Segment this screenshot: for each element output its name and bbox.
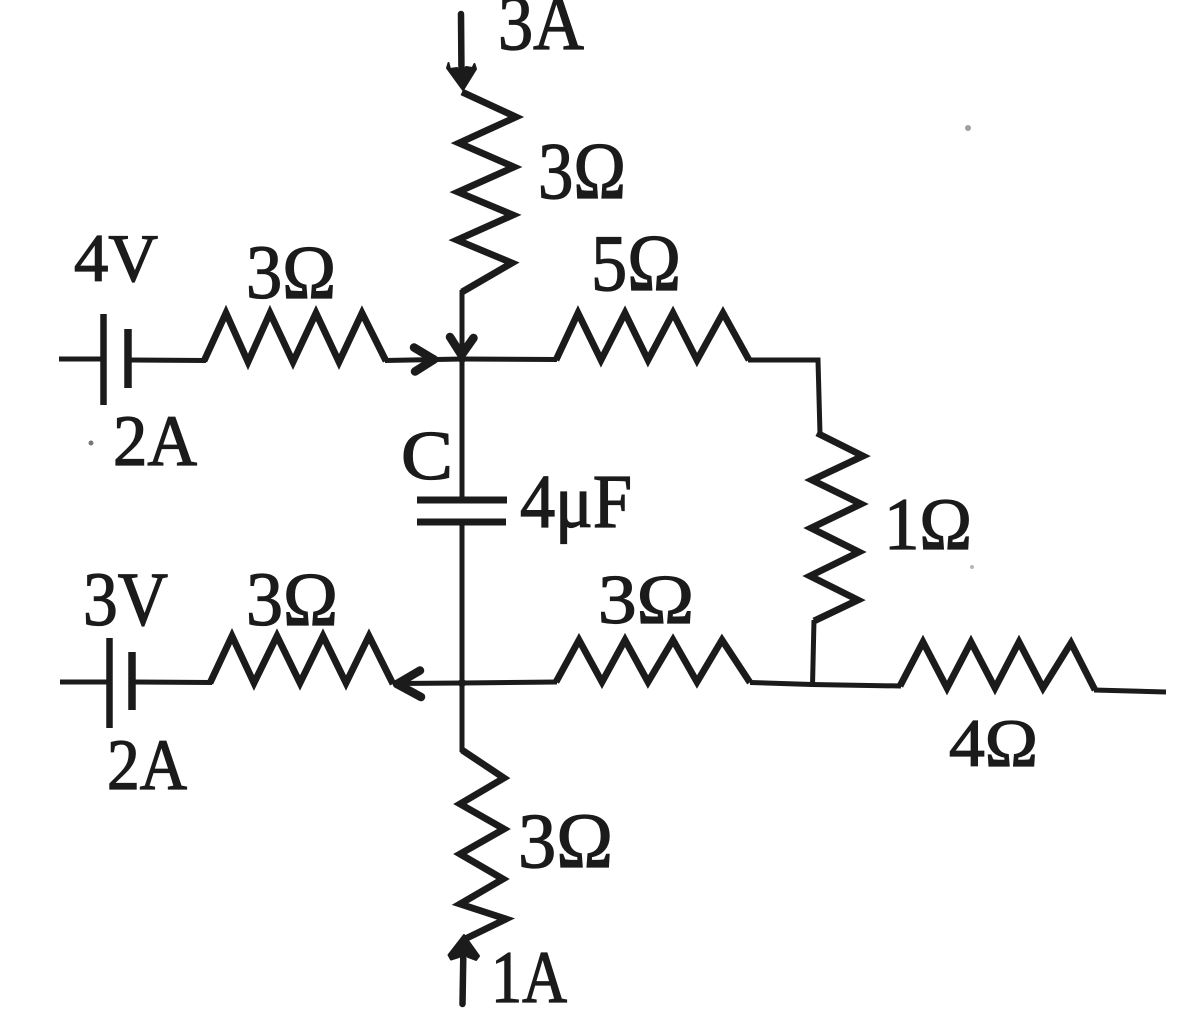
node B junction	[458, 679, 466, 687]
svg-text:4V: 4V	[74, 220, 158, 296]
svg-text:1Ω: 1Ω	[884, 484, 972, 566]
wire (node B down to bottom resistor)	[460, 683, 465, 752]
wire (3V battery to lower-left 3Ω)	[135, 680, 212, 686]
svg-text:C: C	[401, 418, 453, 495]
wire (node B to lower-left 3Ω with left arrow)	[396, 681, 462, 687]
capacitor C bottom plate	[417, 519, 506, 526]
svg-text:1A: 1A	[491, 937, 567, 1019]
resistor 5Ω	[556, 313, 749, 360]
wire (top resistor to node A)	[460, 290, 465, 360]
wire (middle 3Ω to 4Ω through 1Ω junction)	[750, 683, 901, 687]
dust speck	[965, 125, 971, 131]
wire (4V battery to 3Ω resistor)	[131, 358, 206, 364]
dust speck	[970, 565, 974, 569]
svg-text:4μF: 4μF	[520, 460, 632, 544]
arrowhead into node A (pointing down)	[450, 337, 474, 355]
resistor 3Ω (top vertical)	[457, 92, 516, 292]
battery 3V short plate	[128, 652, 136, 710]
current source arrow 1A (bottom, pointing up)	[449, 935, 480, 1004]
wire (node A to 5Ω resistor)	[462, 357, 557, 363]
svg-text:3Ω: 3Ω	[518, 797, 613, 884]
wire (1Ω bottom to lower branch junction)	[813, 620, 815, 686]
capacitor C top plate	[417, 497, 507, 504]
wire (5Ω to right corner and down to 1Ω)	[748, 360, 820, 434]
battery 4V long plate	[100, 314, 107, 405]
resistor 3Ω (bottom vertical)	[460, 750, 506, 939]
svg-text:3Ω: 3Ω	[246, 558, 338, 642]
current source arrow 3A (top, pointing down)	[447, 14, 476, 90]
svg-text:3V: 3V	[83, 558, 168, 642]
resistor 1Ω (right vertical)	[810, 433, 863, 621]
svg-text:2A: 2A	[107, 725, 187, 805]
svg-text:3A: 3A	[498, 0, 584, 66]
svg-text:3Ω: 3Ω	[598, 562, 694, 639]
resistor 3Ω (bottom middle horizontal)	[556, 640, 750, 683]
wire (left stub of 4V battery)	[59, 357, 103, 362]
dust speck	[89, 441, 94, 446]
arrowhead on wire into node A (pointing right)	[414, 348, 434, 372]
resistor 3Ω (bottom left horizontal)	[210, 636, 393, 684]
wire (4Ω to right end)	[1094, 690, 1166, 692]
svg-text:2A: 2A	[113, 401, 197, 481]
svg-text:4Ω: 4Ω	[949, 705, 1038, 781]
battery 4V short plate	[124, 329, 132, 388]
wire (node A down to capacitor)	[460, 357, 465, 497]
wire (left stub of 3V battery)	[60, 680, 107, 685]
wire (node B to middle 3Ω resistor)	[462, 682, 557, 683]
wire (3Ω resistor to node A with right arrow)	[385, 359, 462, 361]
wire (capacitor to node B)	[460, 525, 465, 684]
resistor 3Ω (top left horizontal)	[204, 313, 386, 362]
node A junction	[458, 355, 466, 363]
resistor 4Ω	[900, 642, 1095, 690]
svg-text:5Ω: 5Ω	[591, 220, 681, 308]
svg-text:3Ω: 3Ω	[246, 231, 336, 315]
arrowhead on wire out of node B (pointing left)	[397, 671, 421, 698]
battery 3V long plate	[106, 638, 113, 728]
svg-text:3Ω: 3Ω	[538, 128, 626, 216]
